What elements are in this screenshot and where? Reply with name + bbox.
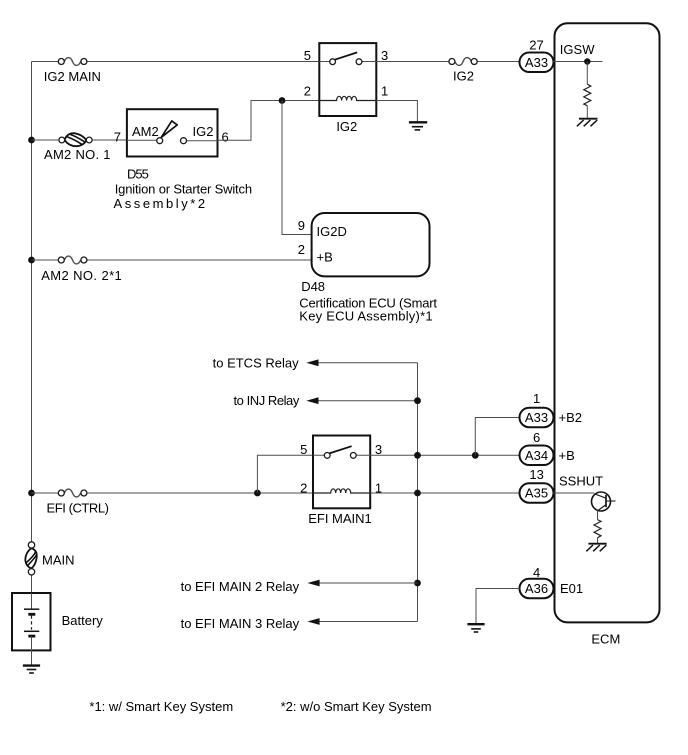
- wire to INJ Relay: [318, 400, 418, 402]
- arrow to ETCS Relay: [213, 355, 319, 370]
- wire pin 1 to A35: [370, 492, 519, 494]
- svg-text:5: 5: [304, 48, 311, 63]
- wire A35 to transistor: [554, 492, 595, 494]
- wire relay pin 1 to ground: [376, 101, 417, 123]
- fuse IG2 MAIN: [44, 58, 101, 84]
- junction dot trunk/EFI: [28, 490, 35, 497]
- fuse IG2: [449, 58, 477, 84]
- svg-text:MAIN: MAIN: [42, 553, 75, 568]
- svg-text:IG2: IG2: [193, 124, 214, 139]
- connector A33 IGSW: [520, 53, 554, 73]
- wire D55 internal pin 6 stub: [186, 140, 217, 142]
- svg-text:to INJ Relay: to INJ Relay: [233, 393, 299, 408]
- svg-text:+B: +B: [559, 448, 575, 463]
- battery box: [12, 593, 103, 650]
- junction dot INJ: [414, 397, 421, 404]
- svg-text:3: 3: [375, 442, 382, 457]
- svg-text:9: 9: [298, 218, 305, 233]
- svg-text:Key ECU Assembly)*1: Key ECU Assembly)*1: [299, 309, 433, 324]
- connector A35 SSHUT: [520, 474, 604, 503]
- wire row AM2 NO.2 to D48 +B: [32, 259, 312, 261]
- label D55 Ignition or Starter Switch Assembly*2: [114, 166, 252, 211]
- wire resistor to chassis ground SSHUT: [597, 538, 599, 543]
- wire relay pin 3 to A33: [376, 61, 519, 63]
- svg-text:6: 6: [533, 430, 540, 445]
- junction dot MAIN2/bus: [414, 580, 421, 587]
- wire pin 3 to A34: [370, 454, 519, 456]
- svg-text:IG2D: IG2D: [317, 224, 347, 239]
- chassis ground SSHUT: [586, 544, 606, 552]
- wire junction down to D48 pin 9: [282, 101, 312, 235]
- fusible link MAIN: [25, 542, 74, 575]
- arrow to INJ Relay: [233, 393, 318, 408]
- wire row EFI (CTRL): [32, 492, 314, 494]
- wire A36 to ground: [476, 589, 520, 625]
- svg-text:2: 2: [304, 84, 311, 99]
- svg-text:IG2: IG2: [453, 69, 474, 84]
- svg-text:6: 6: [222, 129, 229, 144]
- svg-text:D48: D48: [301, 279, 325, 294]
- junction dot EFI pin5 branch: [254, 490, 261, 497]
- wire D55 internal pin 7 stub: [127, 139, 157, 141]
- relay IG2 switch contacts: [319, 52, 376, 64]
- svg-text:AM2 NO. 1: AM2 NO. 1: [44, 147, 111, 162]
- svg-text:*1: w/ Smart Key System: *1: w/ Smart Key System: [89, 699, 233, 714]
- svg-text:IG2: IG2: [336, 119, 357, 134]
- svg-text:EFI (CTRL): EFI (CTRL): [47, 501, 109, 516]
- fuse AM2 NO. 2: [41, 256, 122, 283]
- svg-text:SSHUT: SSHUT: [559, 474, 603, 489]
- wire IGSW node down to resistor: [586, 62, 588, 85]
- svg-text:+B: +B: [317, 250, 333, 265]
- svg-text:AM2 NO. 2*1: AM2 NO. 2*1: [41, 268, 122, 283]
- wire row AM2 NO.1 to D55 pin 7: [32, 139, 127, 141]
- svg-text:Ignition or Starter Switch: Ignition or Starter Switch: [115, 181, 252, 196]
- svg-text:IG2 MAIN: IG2 MAIN: [44, 69, 101, 84]
- wire resistor to chassis ground: [586, 106, 588, 118]
- transistor in ECM: [592, 492, 616, 511]
- wire transistor emitter to resistor: [597, 511, 599, 520]
- resistor in ECM (SSHUT): [594, 520, 601, 538]
- node IGSW junction dot: [584, 58, 590, 64]
- switch D55 contacts and blade: [157, 121, 187, 144]
- resistor in ECM (IGSW pull-down): [584, 84, 591, 106]
- svg-text:A34: A34: [525, 448, 548, 463]
- relay EFI MAIN1 box: [300, 436, 382, 509]
- wire to ETCS Relay: [318, 362, 418, 364]
- battery cells: [24, 593, 39, 665]
- svg-text:1: 1: [533, 391, 540, 406]
- connector D48 box: [298, 213, 430, 276]
- connector A34 +B: [520, 446, 575, 466]
- svg-text:13: 13: [529, 467, 543, 482]
- junction dot pin1/bus: [414, 490, 421, 497]
- svg-text:7: 7: [114, 129, 121, 144]
- svg-text:to EFI MAIN 2 Relay: to EFI MAIN 2 Relay: [181, 579, 300, 594]
- svg-text:ECM: ECM: [591, 631, 620, 646]
- svg-text:AM2: AM2: [132, 124, 159, 139]
- ground earth at A36: [467, 624, 484, 632]
- connector A33 +B2: [520, 408, 583, 428]
- connector A36 E01: [520, 579, 584, 599]
- wire +B2 riser to A33: [475, 418, 519, 456]
- chassis ground IGSW: [577, 119, 598, 127]
- fuse EFI (CTRL): [47, 489, 109, 515]
- relay IG2 box: [304, 43, 388, 116]
- svg-text:2: 2: [300, 481, 307, 496]
- relay IG2 coil: [319, 96, 376, 100]
- svg-text:A35: A35: [525, 486, 548, 501]
- svg-text:5: 5: [300, 442, 307, 457]
- junction dot pin3/bus: [414, 452, 421, 459]
- wire D55 pin 6 up to junction: [218, 101, 320, 141]
- svg-text:A33: A33: [525, 55, 548, 70]
- arrow to EFI MAIN 2 Relay: [181, 579, 320, 594]
- ground earth at relay IG2: [409, 122, 427, 130]
- fusible link AM2 NO. 1: [44, 133, 111, 162]
- relay EFI MAIN1 coil: [313, 489, 370, 493]
- junction dot trunk/AM2 NO.1: [28, 137, 35, 144]
- junction dot node to D48: [279, 97, 286, 104]
- relay EFI MAIN1 switch contacts: [313, 446, 370, 458]
- svg-text:+B2: +B2: [559, 410, 583, 425]
- wire to EFI MAIN 3 Relay: [319, 621, 418, 623]
- junction dot +B2 riser: [472, 452, 479, 459]
- svg-text:IGSW: IGSW: [560, 42, 595, 57]
- svg-text:D55: D55: [127, 166, 149, 181]
- junction dot trunk/AM2 NO.2: [28, 257, 35, 264]
- wire left trunk vertical: [31, 62, 33, 594]
- label D48 Certification ECU: [299, 279, 437, 324]
- svg-text:Assembly*2: Assembly*2: [114, 196, 208, 211]
- svg-text:to ETCS Relay: to ETCS Relay: [213, 355, 299, 370]
- svg-text:Battery: Battery: [62, 613, 104, 628]
- wire A33 into ECM with stub: [554, 61, 603, 63]
- svg-text:to EFI MAIN 3 Relay: to EFI MAIN 3 Relay: [181, 616, 300, 631]
- wire to EFI MAIN 2 Relay: [319, 582, 418, 584]
- svg-text:E01: E01: [560, 581, 583, 596]
- svg-text:27: 27: [529, 38, 543, 53]
- ground earth at battery: [23, 666, 40, 673]
- svg-text:A36: A36: [525, 581, 548, 596]
- wire row IG2 MAIN to relay pin 5: [32, 61, 320, 63]
- svg-text:2: 2: [298, 242, 305, 257]
- arrow to EFI MAIN 3 Relay: [181, 616, 320, 631]
- wire pin5 branch: [257, 455, 313, 493]
- switch D55 box: [114, 109, 229, 156]
- svg-text:3: 3: [381, 48, 388, 63]
- svg-text:EFI MAIN1: EFI MAIN1: [308, 511, 372, 526]
- svg-text:A33: A33: [525, 410, 548, 425]
- svg-text:*2: w/o Smart Key System: *2: w/o Smart Key System: [281, 699, 432, 714]
- ECM box: [555, 23, 660, 646]
- wire mid vertical bus: [417, 363, 419, 622]
- svg-text:1: 1: [381, 84, 388, 99]
